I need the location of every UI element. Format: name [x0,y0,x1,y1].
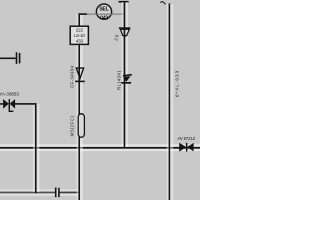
wire middle vertical halo [76,14,83,200]
svg-text:6*AL-033: 6*AL-033 [174,70,179,97]
svg-text:042: 042 [100,16,108,22]
svg-text:SEL: SEL [99,7,109,13]
wire right vertical halo [167,4,174,200]
wire main horizontal bus [0,147,200,149]
component box R1 (222 / LS-10 / 433) [70,26,88,44]
diode D1 cathode bar [75,81,85,83]
svg-text:433: 433 [76,39,84,44]
diode pair D4 left filled triangle [179,143,186,152]
svg-text:CF-34934: CF-34934 [69,65,74,88]
svg-text:222: 222 [76,27,84,32]
wire vertical x=124 from top bar to main bus [124,2,126,148]
wire top horizontal gray from corner to circle and node [79,13,125,15]
wire top node bar on x=124 vertical [119,1,129,3]
capacitor C2 plate 2 [58,188,60,197]
diode pair D4 center bar [186,143,188,152]
svg-text:AV 9721Z: AV 9721Z [178,136,196,141]
diode D1 triangle [76,68,83,78]
svg-text:LS-10: LS-10 [74,33,86,38]
wire middle vertical (x=79.2) [78,13,80,200]
diode D3 filled triangle [123,76,130,82]
wire left stub into triac [0,103,3,105]
diode pair D4 right filled triangle [187,143,194,152]
capacitor C2 plate 1 [55,188,57,198]
wire triac to bend horizontal [15,103,36,105]
wire main horizontal bus halo [0,144,200,151]
squiggle mark top near right vertical [160,2,165,5]
svg-text:YA-33853: YA-33853 [0,92,19,98]
diode D2 trapezoid body [120,29,129,36]
wire vertical x=124 halo [122,2,128,147]
wire left vertical halo [33,104,40,192]
wire left vertical (x=35.7) [35,103,37,193]
wire top horizontal black portion near corner [78,13,87,15]
diode D2 top bar [119,27,130,29]
capacitor C1 top-left lead [0,58,16,60]
triac VR1 center bar [9,99,10,108]
wire bottom gray line right of capacitor C2 [60,192,80,194]
triac VR1 right triangle [10,99,15,109]
wire bottom gray line halo [0,189,80,196]
svg-text:RL(43K): RL(43K) [116,70,121,90]
diode D3 top bar [123,74,132,77]
triac VR1 gate lead [9,105,13,111]
wire gray line through meter circle [97,13,112,15]
diode D3 bottom bar [121,82,131,84]
triac VR1 left triangle [3,99,9,109]
wire right vertical (x=169.4) [169,3,171,200]
meter circle U1 (SEL 042) [96,4,111,19]
wire bottom gray line left of capacitor C2 [0,192,55,194]
capacitor C1 plate 2 [19,53,21,63]
capacitor C1 plate 1 [16,52,18,64]
svg-text:MS(2FC): MS(2FC) [70,115,75,136]
fuse F1 body oval [78,114,84,138]
